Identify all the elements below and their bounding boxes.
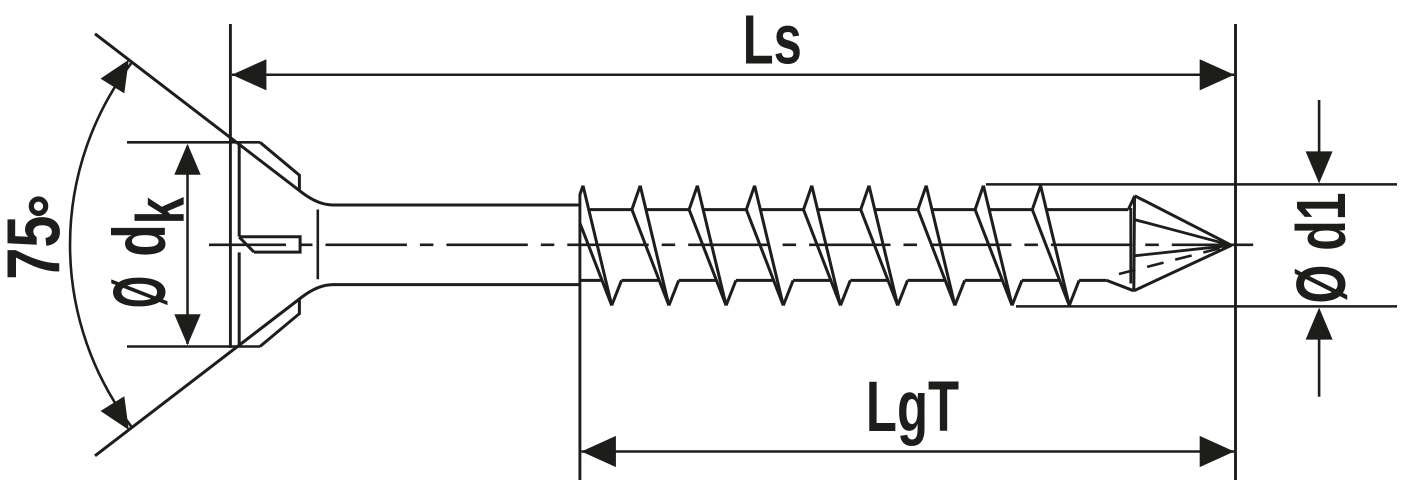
dk dimension line (vertical, across head) <box>186 146 189 344</box>
Ls dimension: left extension line (head face plane) <box>229 24 232 348</box>
thread turn 9 (crest, flank band, bottom crest) <box>1032 186 1079 306</box>
svg-text:Ls: Ls <box>743 0 802 78</box>
d1 extension line (top, thread outer diameter) <box>986 183 1397 186</box>
svg-text:Ø: Ø <box>99 276 182 308</box>
head bottom cone silhouette + fillet + shank bottom line (75 deg construction line) <box>95 285 580 456</box>
thread turn 2 (crest, flank band, bottom crest) <box>632 186 679 306</box>
75 deg angle arc <box>70 62 132 427</box>
head/shank transition line <box>316 210 319 280</box>
Ls right arrowhead <box>1200 59 1235 90</box>
head rim chamfer strip (top) <box>260 142 299 190</box>
75 deg arc bottom arrowhead <box>101 396 129 430</box>
thread core bottom line (root cylinder, interrupted by thread crests) <box>580 279 1107 282</box>
Ls left arrowhead <box>232 59 267 90</box>
thread turn 8 (crest, flank band, bottom crest) <box>975 186 1022 306</box>
head face line (flat of countersunk head, interrupted by drive slot) <box>238 142 241 347</box>
tip facet edge (upper) <box>1135 220 1232 246</box>
screw centerline (dash-dot axis) <box>209 244 1262 247</box>
LgT right arrowhead <box>1200 436 1235 467</box>
svg-text:75: 75 <box>0 215 76 279</box>
head bottom edge + dk extension line (bottom) <box>127 345 260 348</box>
dk bottom arrowhead <box>174 314 200 345</box>
thread turn 7 (crest, flank band, bottom crest) <box>918 186 965 306</box>
LgT left arrowhead <box>581 436 616 467</box>
Ls dimension: right extension line (tip plane, shared with LgT) <box>1234 24 1237 480</box>
thread turn 3 (crest, flank band, bottom crest) <box>689 186 736 306</box>
dk top arrowhead <box>174 144 200 175</box>
tip cone top silhouette <box>1135 196 1232 246</box>
svg-text:Ø d1: Ø d1 <box>1282 192 1360 303</box>
degree symbol of 75 deg label <box>31 199 45 213</box>
Ls dimension line <box>232 74 1234 77</box>
d1 bottom arrow with tail <box>1318 339 1321 397</box>
thread turn 1 (crest, flank band, bottom crest) <box>580 186 622 306</box>
tip cone bottom silhouette <box>1134 245 1232 290</box>
tip cone base edge (double line) <box>1131 196 1135 290</box>
d1 top arrow with tail <box>1318 100 1321 152</box>
tip hidden cut edge (dashed) <box>1119 246 1228 274</box>
thread start line + LgT left extension line <box>578 194 581 480</box>
head top edge + dk extension line (top) <box>127 141 260 144</box>
thread turn 4 (crest, flank band, bottom crest) <box>746 186 793 306</box>
thread turn 6 (crest, flank band, bottom crest) <box>861 186 908 306</box>
tip transition bottom (root line down to cone base) <box>1107 280 1134 290</box>
75 deg arc top arrowhead <box>101 60 129 94</box>
tip transition top (root line jog up to cone base) <box>1128 196 1135 210</box>
LgT dimension line <box>581 450 1234 453</box>
thread turn 5 (crest, flank band, bottom crest) <box>804 186 851 306</box>
thread core top line (root cylinder, interrupted by thread flanks) <box>589 208 1129 211</box>
head top cone silhouette + fillet + shank top line (75 deg construction line) <box>95 34 580 205</box>
head rim chamfer strip (bottom) <box>260 298 299 346</box>
d1 extension line (bottom, thread outer diameter) <box>1016 305 1397 308</box>
drive slot recess outline <box>239 237 300 252</box>
svg-text:LgT: LgT <box>866 368 959 447</box>
tip facet edge (lower) <box>1135 245 1232 256</box>
